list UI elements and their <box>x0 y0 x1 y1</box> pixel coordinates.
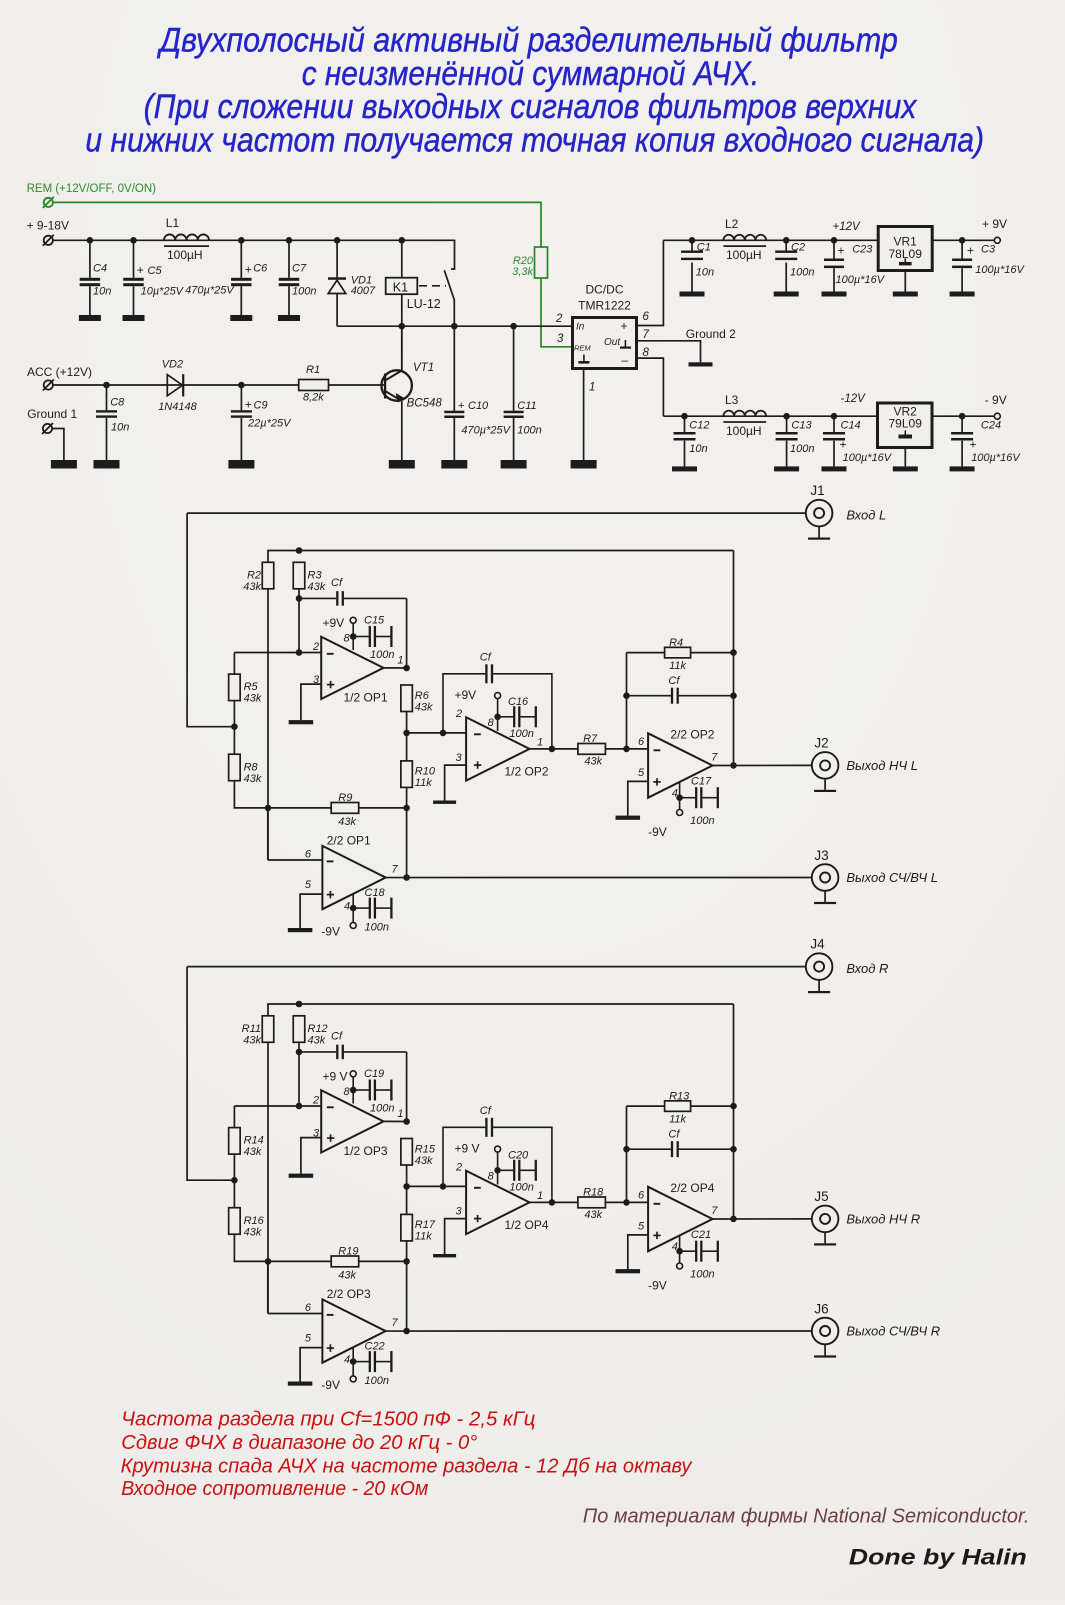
svg-text:C17: C17 <box>691 776 712 788</box>
svg-text:1: 1 <box>537 736 543 748</box>
svg-text:1: 1 <box>537 1190 543 1202</box>
svg-text:100n: 100n <box>365 1375 389 1387</box>
svg-text:-9V: -9V <box>321 1378 340 1392</box>
svg-text:1: 1 <box>589 382 595 394</box>
svg-text:с неизменённой суммарной АЧХ.: с неизменённой суммарной АЧХ. <box>302 55 760 93</box>
svg-text:Cf: Cf <box>668 675 680 687</box>
svg-text:43k: 43k <box>308 1035 326 1047</box>
svg-text:100n: 100n <box>292 285 316 297</box>
svg-text:6: 6 <box>638 1190 645 1202</box>
svg-text:7: 7 <box>392 1317 399 1329</box>
svg-text:J1: J1 <box>810 483 824 498</box>
svg-text:10n: 10n <box>93 285 111 297</box>
svg-text:4: 4 <box>344 901 350 913</box>
svg-text:VD2: VD2 <box>162 359 183 371</box>
svg-text:100n: 100n <box>517 425 541 437</box>
svg-text:3: 3 <box>456 752 463 764</box>
svg-text:R15: R15 <box>415 1144 436 1156</box>
svg-text:R2: R2 <box>247 570 261 582</box>
svg-text:LU-12: LU-12 <box>407 297 441 311</box>
svg-text:11k: 11k <box>415 777 432 789</box>
svg-text:-9V: -9V <box>648 825 667 839</box>
svg-text:C11: C11 <box>517 400 536 412</box>
svg-text:100n: 100n <box>365 922 389 934</box>
svg-text:C21: C21 <box>691 1229 711 1241</box>
svg-text:+12V: +12V <box>833 221 862 233</box>
svg-text:C12: C12 <box>689 420 709 432</box>
svg-text:100n: 100n <box>690 1269 714 1281</box>
svg-text:43k: 43k <box>584 756 602 768</box>
svg-text:10µ*25V: 10µ*25V <box>141 285 185 297</box>
svg-text:C3: C3 <box>981 243 996 255</box>
svg-text:1/2 OP3: 1/2 OP3 <box>344 1144 388 1158</box>
svg-text:8: 8 <box>488 717 495 729</box>
svg-text:11k: 11k <box>669 1114 686 1126</box>
svg-text:7: 7 <box>711 752 718 764</box>
svg-text:C15: C15 <box>364 614 385 626</box>
svg-text:TMR1222: TMR1222 <box>578 299 631 313</box>
svg-text:R16: R16 <box>244 1215 265 1227</box>
svg-text:Выход НЧ L: Выход НЧ L <box>846 758 918 773</box>
svg-text:(При сложении выходных сигнало: (При сложении выходных сигналов фильтров… <box>144 88 918 126</box>
svg-text:C19: C19 <box>364 1068 384 1080</box>
svg-text:+: + <box>245 398 252 412</box>
svg-text:Cf: Cf <box>668 1129 680 1141</box>
svg-text:Выход СЧ/ВЧ L: Выход СЧ/ВЧ L <box>846 870 938 885</box>
svg-text:C1: C1 <box>697 242 711 254</box>
svg-text:In: In <box>576 322 585 333</box>
svg-text:+9V: +9V <box>455 688 477 702</box>
svg-text:8,2k: 8,2k <box>303 392 324 404</box>
svg-text:7: 7 <box>392 864 399 876</box>
svg-text:5: 5 <box>305 879 312 891</box>
svg-text:R14: R14 <box>244 1135 264 1147</box>
svg-text:C6: C6 <box>253 263 268 275</box>
svg-text:Двухполосный активный разделит: Двухполосный активный разделительный фил… <box>156 22 898 60</box>
svg-text:J6: J6 <box>814 1301 828 1316</box>
svg-text:L2: L2 <box>725 217 739 231</box>
svg-text:2: 2 <box>555 313 563 325</box>
svg-text:-9V: -9V <box>321 925 340 939</box>
svg-text:ACC (+12V): ACC (+12V) <box>27 365 92 379</box>
svg-text:VT1: VT1 <box>413 362 434 374</box>
svg-text:R8: R8 <box>244 762 259 774</box>
svg-text:Cf: Cf <box>480 652 492 664</box>
svg-text:R9: R9 <box>338 792 352 804</box>
svg-text:REM (+12V/OFF, 0V/ON): REM (+12V/OFF, 0V/ON) <box>27 183 157 195</box>
svg-text:100µ*16V: 100µ*16V <box>843 452 893 464</box>
svg-text:79L09: 79L09 <box>889 417 923 431</box>
svg-text:C23: C23 <box>852 243 873 255</box>
svg-text:43k: 43k <box>243 1035 261 1047</box>
svg-text:8: 8 <box>488 1170 495 1182</box>
svg-text:43k: 43k <box>244 693 262 705</box>
svg-text:1: 1 <box>397 655 403 667</box>
svg-text:+: + <box>967 244 974 258</box>
svg-text:2: 2 <box>312 641 319 653</box>
svg-text:8: 8 <box>344 1086 351 1098</box>
svg-text:43k: 43k <box>338 816 356 828</box>
svg-text:C7: C7 <box>292 263 307 275</box>
svg-text:11k: 11k <box>669 660 686 672</box>
svg-text:3: 3 <box>557 333 564 345</box>
svg-text:R6: R6 <box>415 690 430 702</box>
svg-text:100µ*16V: 100µ*16V <box>971 452 1021 464</box>
svg-text:4: 4 <box>672 1241 678 1253</box>
svg-text:2: 2 <box>312 1095 319 1107</box>
svg-text:C4: C4 <box>93 263 107 275</box>
svg-text:5: 5 <box>638 1221 645 1233</box>
svg-text:C10: C10 <box>468 400 489 412</box>
svg-text:Частота раздела при Cf=1500 пФ: Частота раздела при Cf=1500 пФ - 2,5 кГц <box>121 1408 535 1430</box>
svg-text:5: 5 <box>638 767 645 779</box>
svg-text:R10: R10 <box>415 766 436 778</box>
svg-text:100µ*16V: 100µ*16V <box>836 274 886 286</box>
svg-text:+ 9-18V: + 9-18V <box>27 219 69 233</box>
svg-text:Сдвиг ФЧХ в диапазоне до 20 кГ: Сдвиг ФЧХ в диапазоне до 20 кГц - 0° <box>121 1432 477 1454</box>
svg-text:J3: J3 <box>814 848 828 863</box>
svg-text:+9 V: +9 V <box>455 1142 480 1156</box>
svg-text:4007: 4007 <box>351 285 376 297</box>
svg-text:Ground 2: Ground 2 <box>686 327 736 341</box>
svg-text:R12: R12 <box>308 1023 328 1035</box>
svg-text:100n: 100n <box>509 728 533 740</box>
svg-text:2/2 OP1: 2/2 OP1 <box>327 834 371 848</box>
svg-text:100n: 100n <box>690 815 714 827</box>
svg-text:R11: R11 <box>242 1023 261 1035</box>
svg-text:Cf: Cf <box>331 577 343 589</box>
svg-text:и нижних частот получается точ: и нижних частот получается точная копия … <box>85 122 984 160</box>
svg-text:C9: C9 <box>254 400 268 412</box>
svg-text:C5: C5 <box>148 265 163 277</box>
svg-text:100µ*16V: 100µ*16V <box>975 264 1025 276</box>
svg-text:R19: R19 <box>338 1246 358 1258</box>
svg-text:R17: R17 <box>415 1219 436 1231</box>
svg-text:43k: 43k <box>415 702 433 714</box>
svg-text:2: 2 <box>455 1162 462 1174</box>
svg-text:Вход R: Вход R <box>846 961 888 976</box>
svg-text:1/2 OP2: 1/2 OP2 <box>505 765 549 779</box>
svg-text:1/2 OP4: 1/2 OP4 <box>505 1218 549 1232</box>
svg-text:6: 6 <box>643 311 650 323</box>
svg-text:Входное сопротивление - 20 кОм: Входное сопротивление - 20 кОм <box>121 1478 428 1500</box>
svg-text:+: + <box>245 263 252 277</box>
svg-text:C13: C13 <box>791 420 812 432</box>
svg-text:10n: 10n <box>689 443 707 455</box>
svg-text:43k: 43k <box>308 581 326 593</box>
svg-text:1/2 OP1: 1/2 OP1 <box>344 691 388 705</box>
svg-text:100n: 100n <box>370 1103 394 1115</box>
svg-text:–: – <box>622 353 629 367</box>
svg-text:43k: 43k <box>415 1155 433 1167</box>
svg-text:100n: 100n <box>509 1182 533 1194</box>
svg-text:R4: R4 <box>669 637 683 649</box>
svg-text:+: + <box>458 400 464 412</box>
svg-text:8: 8 <box>344 633 351 645</box>
svg-text:+: + <box>838 244 845 258</box>
svg-text:7: 7 <box>643 329 650 341</box>
svg-text:2/2 OP3: 2/2 OP3 <box>327 1287 371 1301</box>
svg-text:100n: 100n <box>790 267 814 279</box>
svg-text:+9V: +9V <box>323 616 345 630</box>
svg-text:J5: J5 <box>814 1189 828 1204</box>
svg-text:+: + <box>137 263 144 277</box>
svg-text:L1: L1 <box>166 216 180 230</box>
svg-text:Крутизна спада АЧХ на частоте: Крутизна спада АЧХ на частоте раздела - … <box>121 1455 693 1477</box>
svg-text:2: 2 <box>455 708 462 720</box>
svg-text:R18: R18 <box>583 1187 604 1199</box>
svg-text:L3: L3 <box>725 393 739 407</box>
svg-text:J4: J4 <box>810 936 825 951</box>
svg-text:Ground 1: Ground 1 <box>27 407 77 421</box>
svg-text:-9V: -9V <box>648 1278 667 1292</box>
svg-text:470µ*25V: 470µ*25V <box>461 425 511 437</box>
svg-text:100µH: 100µH <box>167 248 203 262</box>
svg-text:3,3k: 3,3k <box>512 266 533 278</box>
svg-text:Выход СЧ/ВЧ R: Выход СЧ/ВЧ R <box>846 1324 940 1339</box>
svg-text:2/2 OP4: 2/2 OP4 <box>670 1181 714 1195</box>
svg-text:+: + <box>621 319 628 333</box>
svg-text:2/2 OP2: 2/2 OP2 <box>670 728 714 742</box>
svg-text:K1: K1 <box>393 280 408 294</box>
svg-text:C22: C22 <box>365 1341 385 1353</box>
svg-text:+ 9V: + 9V <box>982 217 1007 231</box>
svg-text:+9 V: +9 V <box>323 1070 348 1084</box>
svg-text:C8: C8 <box>110 397 125 409</box>
svg-text:R3: R3 <box>308 570 323 582</box>
svg-text:Out: Out <box>604 337 621 348</box>
svg-text:5: 5 <box>305 1333 312 1345</box>
svg-text:R1: R1 <box>306 364 320 376</box>
svg-text:C20: C20 <box>508 1149 529 1161</box>
svg-text:Cf: Cf <box>331 1031 343 1043</box>
svg-text:Выход НЧ R: Выход НЧ R <box>846 1212 920 1227</box>
svg-text:C14: C14 <box>841 420 861 432</box>
svg-text:По материалам фирмы National S: По материалам фирмы National Semiconduct… <box>583 1505 1030 1528</box>
svg-text:10n: 10n <box>111 422 129 434</box>
svg-text:8: 8 <box>643 347 650 359</box>
svg-text:6: 6 <box>305 1302 312 1314</box>
svg-text:43k: 43k <box>243 581 261 593</box>
svg-text:Cf: Cf <box>480 1105 492 1117</box>
svg-text:DC/DC: DC/DC <box>586 283 624 297</box>
svg-text:- 9V: - 9V <box>985 393 1007 407</box>
svg-text:C24: C24 <box>981 420 1001 432</box>
svg-text:100µH: 100µH <box>726 248 762 262</box>
svg-text:11k: 11k <box>415 1231 432 1243</box>
svg-text:-12V: -12V <box>841 393 867 405</box>
svg-text:J2: J2 <box>814 736 828 751</box>
svg-text:6: 6 <box>638 736 645 748</box>
svg-text:10n: 10n <box>696 267 714 279</box>
svg-text:4: 4 <box>672 787 678 799</box>
svg-text:Вход L: Вход L <box>846 507 886 522</box>
svg-text:6: 6 <box>305 849 312 861</box>
svg-text:43k: 43k <box>244 1227 262 1239</box>
svg-text:R5: R5 <box>244 681 259 693</box>
svg-text:C18: C18 <box>365 887 386 899</box>
svg-text:7: 7 <box>711 1205 718 1217</box>
svg-text:100n: 100n <box>370 649 394 661</box>
svg-text:100µH: 100µH <box>726 424 762 438</box>
svg-text:C2: C2 <box>791 242 805 254</box>
svg-text:C16: C16 <box>508 696 529 708</box>
svg-text:+: + <box>840 438 847 452</box>
svg-text:R13: R13 <box>669 1091 690 1103</box>
svg-text:470µ*25V: 470µ*25V <box>185 285 235 297</box>
svg-text:43k: 43k <box>338 1270 356 1282</box>
svg-text:4: 4 <box>344 1354 350 1366</box>
svg-text:100n: 100n <box>790 443 814 455</box>
svg-text:43k: 43k <box>584 1209 602 1221</box>
svg-text:Done by Halin: Done by Halin <box>849 1545 1027 1570</box>
svg-text:43k: 43k <box>244 773 262 785</box>
svg-text:R7: R7 <box>583 733 598 745</box>
svg-text:+: + <box>970 438 977 452</box>
svg-text:3: 3 <box>456 1206 463 1218</box>
svg-text:REM: REM <box>574 344 591 353</box>
svg-text:1: 1 <box>397 1108 403 1120</box>
svg-text:1N4148: 1N4148 <box>158 401 197 413</box>
svg-text:22µ*25V: 22µ*25V <box>247 418 292 430</box>
svg-text:43k: 43k <box>244 1146 262 1158</box>
svg-text:BC548: BC548 <box>407 398 443 410</box>
